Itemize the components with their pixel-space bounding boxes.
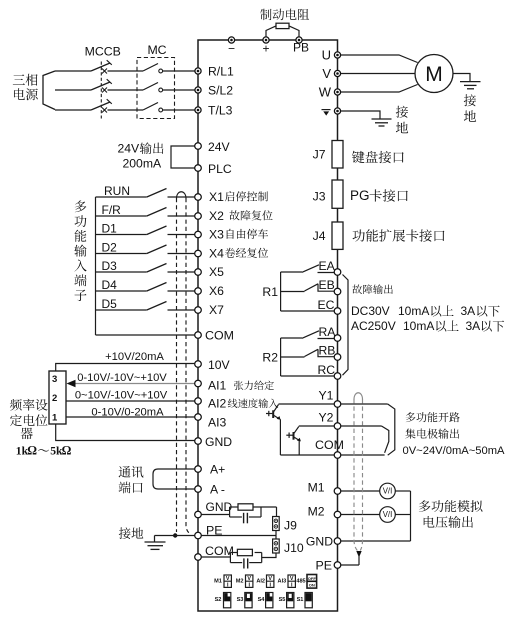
bracket Y2..COM group (inner) (382, 426, 389, 453)
switch RUN (96, 196, 147, 198)
terminal GND (bottom) (195, 511, 202, 518)
label 功能扩展卡接口 (353, 229, 365, 241)
svg-text:D2: D2 (102, 240, 118, 254)
contact EB (305, 284, 319, 291)
label 频率设定电位器 (10, 399, 22, 411)
wire braking resistor to PB (289, 26, 299, 37)
wire M2 to meter (341, 514, 380, 516)
wire meters to GND bus (395, 490, 410, 492)
svg-text:EB: EB (319, 278, 335, 292)
terminal 10V (195, 361, 202, 368)
label X3自由停车 (227, 229, 234, 239)
label 通讯端口 (119, 466, 131, 478)
svg-text:AI1: AI1 (208, 378, 227, 392)
wire MC to terminal R/L1 (163, 70, 195, 72)
terminal X5 (195, 269, 202, 276)
transistor Q2 (Y2 open collector) (294, 427, 299, 434)
resistor (COM filter) (237, 549, 252, 555)
svg-text:DC30V: DC30V (351, 304, 390, 318)
wire Y1 (279, 403, 335, 405)
terminal EC (334, 308, 341, 315)
MC contactor dashed box (137, 58, 175, 119)
wire GND (analog output return) (341, 540, 411, 542)
wire motor to ground (453, 74, 470, 82)
switch D2 (96, 253, 147, 255)
wire COM return (96, 334, 195, 336)
contactor MC pole M (143, 83, 158, 91)
svg-text:J3: J3 (313, 189, 326, 203)
shield cap (left cable) (177, 192, 187, 199)
svg-text:0V~24V/0mA~50mA: 0V~24V/0mA~50mA (403, 445, 506, 457)
wire COM to RC filter 2 (201, 556, 230, 558)
wire V to motor (341, 73, 415, 75)
svg-text:OFF: OFF (308, 576, 317, 581)
svg-text:V/I: V/I (383, 510, 393, 519)
transistor Q1 (Y1 open collector) (274, 405, 279, 412)
svg-text:X3: X3 (209, 227, 224, 241)
potentiometer body (49, 371, 66, 424)
label three-phase supply 三相电源 (13, 74, 25, 84)
terminal T/L3 (195, 107, 201, 113)
svg-text:Ω: Ω (27, 444, 37, 458)
svg-text:D3: D3 (102, 259, 118, 273)
svg-text:AI2: AI2 (256, 579, 265, 585)
wire Q1 emitter to COM bus (279, 419, 281, 455)
label X4卷经复位 (225, 248, 235, 258)
svg-text:X7: X7 (209, 303, 224, 317)
svg-text:J7: J7 (313, 147, 326, 161)
svg-text:X2: X2 (209, 209, 224, 223)
svg-text:+: + (262, 42, 269, 56)
svg-text:10mA: 10mA (398, 304, 429, 318)
svg-text:3A: 3A (461, 304, 476, 318)
terminal X1 (195, 194, 202, 201)
inverter main block outline (198, 40, 338, 611)
svg-text:PLC: PLC (208, 162, 232, 176)
wire shield drain to PE (358, 556, 360, 565)
svg-text:X4: X4 (209, 246, 224, 260)
meter V/I (M2) (380, 507, 396, 523)
svg-text:J10: J10 (284, 541, 304, 555)
switch D1 (96, 234, 147, 236)
wire PE (201, 535, 276, 537)
svg-text:1: 1 (52, 413, 58, 424)
wire M1 to meter (341, 490, 380, 492)
terminal A+ (195, 466, 202, 473)
wire Y2 to bracket (341, 425, 382, 427)
terminal COM (output common) (334, 452, 341, 459)
svg-text:V: V (226, 576, 230, 582)
wire GND to RC filter (201, 514, 229, 516)
label 多功能开路 (406, 412, 416, 422)
svg-text:S1: S1 (297, 597, 304, 603)
wire pot pin2 to AI2 (66, 400, 194, 402)
relay R1 frame (280, 272, 282, 311)
svg-text:AI3: AI3 (208, 415, 227, 429)
terminal U (334, 52, 340, 58)
terminal PB (brake) (296, 37, 302, 43)
switch F/R (96, 215, 147, 217)
svg-text:V: V (290, 576, 294, 582)
wire + to braking resistor (266, 26, 276, 37)
svg-text:U: U (322, 48, 331, 63)
shield wire right (dashed) (186, 198, 191, 534)
bracket Y1..COM group (outer) (388, 404, 395, 455)
breaker MCCB pole L (91, 63, 110, 71)
svg-text:S5: S5 (279, 597, 286, 603)
svg-text:PE: PE (315, 558, 332, 572)
terminal S/L2 (195, 87, 201, 93)
terminal W (334, 89, 340, 95)
wire 24V-PLC jumper bracket (171, 146, 195, 168)
wire phase N from brace to MCCB (55, 109, 91, 111)
terminal X6 (195, 288, 202, 295)
terminal Y1 (334, 401, 341, 408)
svg-text:3: 3 (52, 374, 57, 385)
wire MC to terminal T/L3 (163, 109, 195, 111)
svg-text:RC: RC (318, 363, 336, 377)
braking resistor (276, 23, 289, 28)
terminal GND (right) (334, 538, 341, 545)
svg-text:R1: R1 (262, 285, 278, 299)
svg-text:T/L3: T/L3 (208, 103, 233, 117)
resistor (GND filter) (238, 504, 253, 510)
label 多功能模拟 (419, 500, 431, 512)
motor M (415, 55, 453, 93)
ground symbol (motor) (460, 81, 481, 83)
relay output group bracket (343, 275, 349, 376)
svg-text:200mA: 200mA (123, 156, 162, 170)
ground symbol (control earth) (154, 536, 156, 543)
svg-text:X5: X5 (209, 265, 224, 279)
svg-text:V: V (322, 66, 331, 81)
connector J4 (expansion card) (332, 222, 343, 249)
breaker MCCB pole N (91, 102, 110, 110)
svg-text:M1: M1 (214, 579, 222, 585)
wire Y1 to bracket (341, 403, 388, 405)
svg-text:GND: GND (205, 435, 232, 449)
svg-text:J4: J4 (313, 229, 326, 243)
svg-text:485: 485 (296, 579, 305, 585)
wire W to motor (341, 85, 418, 93)
label X2故障复位 (229, 210, 239, 220)
svg-text:0-10V/-10V~+10V: 0-10V/-10V~+10V (77, 372, 167, 384)
terminal AI2 (195, 398, 202, 405)
wire COM to bracket (341, 454, 385, 456)
svg-text:M1: M1 (308, 480, 325, 494)
wire pot pin3 to 10V (56, 364, 195, 372)
label 接地 (motor ground) (464, 94, 476, 106)
wire R1 to EB contact (281, 291, 305, 293)
label 集电极输出 (405, 428, 415, 438)
wire AI1 wiper (arrow) (75, 383, 194, 385)
svg-text:10V: 10V (208, 358, 231, 372)
svg-text:V: V (247, 576, 251, 582)
label 电压输出 (424, 516, 435, 528)
svg-text:R/L1: R/L1 (208, 64, 234, 78)
svg-text:EA: EA (319, 259, 336, 273)
terminal 24V (195, 143, 202, 150)
svg-text:S4: S4 (258, 597, 266, 603)
relay R2 frame (280, 338, 282, 376)
svg-text:F/R: F/R (102, 203, 122, 217)
label 接地 (control earth) (119, 527, 131, 539)
wire MCCB to MC pole M (108, 89, 144, 91)
svg-text:AI2: AI2 (208, 396, 227, 410)
svg-text:S/L2: S/L2 (208, 83, 233, 97)
svg-text:J9: J9 (284, 518, 297, 532)
svg-text:EC: EC (318, 298, 335, 312)
contactor MC pole L (143, 64, 158, 72)
svg-text:D4: D4 (102, 278, 118, 292)
svg-text:Ω: Ω (62, 444, 72, 458)
jumper J9 (273, 517, 280, 531)
shield wire left (right cable, dashed) (354, 399, 357, 551)
wire R2 common to RC (281, 375, 335, 377)
svg-text:AI3: AI3 (278, 579, 287, 585)
wire MC to terminal S/L2 (163, 89, 195, 91)
svg-text:MCCB: MCCB (85, 44, 121, 58)
svg-text:RUN: RUN (104, 184, 130, 198)
svg-text:2: 2 (52, 393, 57, 404)
svg-text:PB: PB (293, 41, 309, 55)
wire pot pin1 to AI3 (66, 416, 194, 418)
wire R1 to EA contact (281, 271, 302, 273)
wire input common bus (left) (95, 197, 97, 335)
earth symbol at terminal label (322, 109, 331, 111)
connector J3 (PG card) (332, 180, 343, 208)
shield wire right (right cable, dashed) (360, 399, 362, 551)
svg-text:AC250V: AC250V (351, 319, 396, 333)
label 键盘接口 (352, 151, 365, 163)
connector J7 (keypad) (332, 141, 343, 169)
terminal EB (334, 288, 341, 295)
RC filter 1 frame (229, 507, 231, 517)
terminal M1 (334, 488, 341, 495)
svg-text:D1: D1 (102, 221, 118, 235)
svg-text:W: W (319, 85, 332, 100)
svg-text:RB: RB (319, 344, 336, 358)
wire MCCB to MC pole N (108, 109, 144, 111)
terminal COM (bottom) (195, 554, 202, 561)
terminal PE (right) (334, 562, 341, 569)
shield cap (right cable) (354, 393, 363, 400)
terminal EA (334, 269, 341, 276)
terminal GND (analog) (195, 438, 202, 445)
wire J10 to RC filter 2 (262, 553, 276, 558)
ground symbol (inverter) (372, 118, 392, 120)
capacitor (COM filter) (243, 558, 245, 568)
svg-text:GND: GND (306, 534, 333, 548)
label braking resistor 制动电阻 (260, 9, 271, 20)
wire R2 to RB contact (281, 356, 305, 358)
terminal X3 (195, 231, 202, 238)
terminal PLC (195, 165, 202, 172)
wire RC filter to J9 (276, 507, 278, 517)
wire J9 to J10 (crosses PE wire) (275, 531, 277, 540)
terminal M2 (334, 511, 341, 518)
breaker MCCB pole M (91, 82, 110, 90)
contactor MC pole N (143, 103, 158, 111)
svg-text:MC: MC (147, 43, 166, 57)
label 多功能输入端子 (multi-function input terminals) (75, 200, 87, 212)
terminal + (DC bus plus) (263, 37, 269, 43)
switch D3 (96, 271, 147, 273)
svg-text:D5: D5 (102, 297, 118, 311)
wire COM bus (open collector common) (280, 454, 334, 456)
switch D5 (96, 309, 147, 311)
svg-text:RA: RA (319, 325, 337, 339)
meter V/I (M1) (380, 483, 396, 499)
svg-text:PG: PG (350, 188, 370, 203)
terminal A- (195, 486, 202, 493)
contact RB (305, 349, 319, 356)
terminal X7 (195, 307, 202, 314)
earth wire to PE (155, 535, 195, 537)
svg-text:24V: 24V (118, 141, 141, 155)
svg-text:V/I: V/I (383, 487, 393, 496)
svg-text:COM: COM (315, 438, 344, 452)
svg-text:+10V/20mA: +10V/20mA (105, 351, 164, 363)
wire Q2 emitter to COM bus (298, 441, 300, 455)
terminal RA (334, 335, 341, 342)
MCCB mechanical link dashed line (100, 62, 102, 119)
wire U to motor (341, 55, 418, 63)
contact RA (NO) (302, 331, 319, 339)
wire earth terminal to ground (341, 111, 380, 119)
wire phase M from brace to MCCB (55, 89, 91, 91)
wire comm port bracket (153, 469, 194, 489)
contact EA (NO) (302, 265, 319, 273)
terminal R/L1 (195, 68, 201, 74)
svg-text:A -: A - (210, 482, 225, 496)
terminal AI3 (195, 414, 202, 421)
svg-text:S3: S3 (237, 597, 244, 603)
svg-text:0~10V/-10V~+10V: 0~10V/-10V~+10V (75, 390, 168, 402)
label 接地 (inverter ground) (396, 106, 408, 118)
svg-text:10mA: 10mA (403, 319, 434, 333)
svg-text:COM: COM (205, 328, 234, 342)
svg-text:Y1: Y1 (319, 388, 334, 402)
junction shield to earth (173, 533, 177, 537)
wire R2 to RA contact (281, 337, 302, 339)
svg-text:V: V (268, 576, 272, 582)
terminal PE (inverter earth) (334, 108, 340, 114)
terminal RB (334, 354, 341, 361)
supply brace (43, 71, 55, 110)
terminal AI1 (195, 380, 202, 387)
terminal X2 (195, 213, 202, 220)
wire R1 common to EC (281, 310, 335, 312)
wire MCCB to MC pole L (108, 70, 144, 72)
svg-text:M: M (425, 63, 443, 86)
wire phase L from brace to MCCB (55, 70, 91, 72)
svg-text:3A: 3A (466, 319, 481, 333)
label X1启停控制 (225, 191, 234, 201)
svg-text:M2: M2 (308, 504, 325, 518)
terminal PE (bottom) (195, 532, 202, 539)
svg-text:R2: R2 (262, 350, 278, 364)
svg-text:A+: A+ (210, 462, 225, 476)
svg-text:S2: S2 (215, 597, 222, 603)
terminal X4 (195, 250, 202, 257)
RC filter 2 frame (229, 553, 231, 563)
label 故障输出 (fault output) (352, 284, 362, 294)
svg-text:X1: X1 (209, 190, 224, 204)
terminal - (DC bus minus) (228, 37, 234, 43)
terminal RC (334, 373, 341, 380)
switch D4 (96, 290, 147, 292)
svg-text:Y2: Y2 (319, 411, 334, 425)
svg-text:0-10V/0-20mA: 0-10V/0-20mA (91, 407, 164, 419)
wire pot bottom to GND (56, 424, 195, 441)
wire PE (right) (341, 564, 359, 566)
svg-text:−: − (228, 42, 235, 56)
svg-text:24V: 24V (208, 140, 231, 154)
terminal V (334, 70, 340, 76)
wire Y2 (299, 425, 334, 427)
svg-text:GND: GND (206, 500, 233, 514)
svg-text:COM: COM (205, 544, 234, 558)
shield wire left (dashed) (176, 198, 178, 532)
shield drain arrow (356, 551, 361, 558)
terminal COM (digital common) (195, 332, 202, 339)
svg-text:M2: M2 (236, 579, 244, 585)
svg-text:ON: ON (309, 582, 315, 587)
terminal Y2 (334, 423, 341, 430)
svg-text:X6: X6 (209, 284, 224, 298)
capacitor (GND filter) (243, 513, 245, 524)
jumper J10 (273, 539, 280, 553)
